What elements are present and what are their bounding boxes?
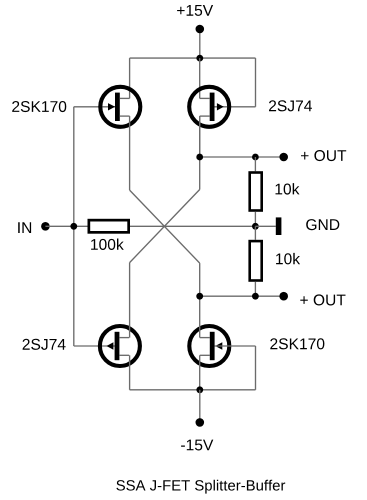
wire R2 to bottom out row [254, 282, 256, 296]
wire bottom rail [130, 389, 256, 391]
transistor Q3 2SJ74 (bottom-left) [100, 326, 140, 366]
label IN [18, 222, 31, 233]
wire Q1 gate horizontal [74, 106, 115, 108]
wire top out row to R1 [254, 157, 256, 171]
wire GND junction to symbol [255, 225, 275, 227]
wire +15V stem [199, 29, 201, 58]
wire Q2 source to out row [199, 116, 201, 157]
junction bottom out row resistor [252, 293, 259, 300]
label 10k top [276, 183, 300, 195]
wire Q2 gate horizontal [215, 106, 256, 108]
label 2SK170 bottom-right [270, 338, 324, 349]
wire Q2 gate branch vertical [255, 58, 257, 107]
junction input bus [70, 223, 77, 230]
wire Q4 gate horizontal [215, 345, 256, 347]
wire Q1 source vertical [129, 116, 131, 190]
wire diagonal Q1 source to bottom out [130, 190, 200, 263]
node IN terminal [41, 222, 50, 231]
wire Q3 source to bottom rail [129, 355, 131, 390]
transistor Q2 2SJ74 (top-right) [189, 87, 229, 127]
node + OUT bottom terminal [279, 292, 288, 301]
label 100k [91, 239, 124, 251]
label 2SJ74 bottom-left [23, 339, 66, 350]
wire 100k to GND junction [130, 225, 255, 227]
title SSA J-FET Splitter-Buffer [116, 480, 285, 494]
wire Q4 drain vertical [199, 263, 201, 338]
label 2SJ74 top-right [269, 100, 312, 111]
wire Q3 source vertical [129, 263, 131, 338]
junction bottom rail [196, 386, 203, 393]
resistor R1 10k [250, 173, 262, 211]
junction GND node [252, 223, 259, 230]
wire top rail [130, 57, 256, 59]
transistor Q4 2SK170 (bottom-right) [189, 326, 229, 366]
junction top out row resistor [252, 154, 259, 161]
label +15V [177, 5, 213, 16]
junction top rail [196, 55, 203, 62]
wire input gate bus vertical [73, 107, 75, 346]
transistor Q1 2SK170 (top-left) [100, 87, 140, 127]
label + OUT bottom [300, 294, 345, 305]
wire IN to junction [45, 225, 87, 227]
wire Q2 drain vertical [199, 58, 201, 98]
wire Q1 drain vertical [129, 58, 131, 98]
wire Q3 gate horizontal [74, 345, 115, 347]
junction top out row left [196, 154, 203, 161]
label GND [306, 219, 339, 230]
label + OUT top [301, 150, 346, 161]
label 2SK170 top-left [12, 101, 66, 112]
wire GND node to R2 [254, 226, 256, 240]
node -15V terminal [196, 418, 205, 427]
wire Q2 source vertical [199, 116, 201, 189]
label 10k bottom [276, 253, 300, 265]
wire Q4 gate branch vertical [255, 346, 257, 390]
wire bottom out row [200, 295, 284, 297]
wire -15V stem [199, 390, 201, 423]
junction bottom out row left [196, 293, 203, 300]
label -15V [181, 440, 213, 451]
ground symbol bar [276, 217, 282, 235]
wire top out row [200, 156, 284, 158]
resistor R3 100k [89, 220, 129, 232]
node + OUT top terminal [279, 153, 288, 162]
wire diagonal top out to Q3 source [130, 190, 200, 263]
wire Q4 source to bottom rail [199, 355, 201, 390]
node +15V terminal [196, 25, 205, 34]
wire R1 to GND node [254, 212, 256, 227]
resistor R2 10k [250, 241, 262, 280]
